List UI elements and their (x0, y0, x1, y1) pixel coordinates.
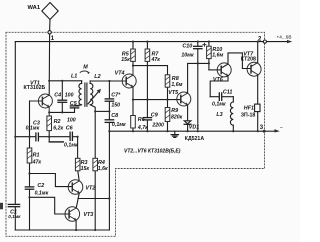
svg-text:1,6к: 1,6к (98, 166, 108, 172)
svg-text:WA1: WA1 (28, 5, 41, 11)
svg-text:47к: 47к (32, 160, 42, 166)
svg-text:1,6м: 1,6м (171, 82, 182, 88)
svg-text:VT3: VT3 (83, 212, 93, 218)
svg-text:10мк: 10мк (181, 52, 194, 58)
svg-text:47к: 47к (151, 57, 161, 63)
svg-text:R9: R9 (171, 108, 178, 114)
svg-text:L1: L1 (71, 73, 77, 79)
svg-text:+4...6В: +4...6В (277, 35, 292, 40)
svg-text:820к: 820к (171, 115, 183, 121)
svg-text:C8: C8 (111, 113, 118, 119)
svg-text:100: 100 (65, 92, 74, 98)
svg-text:R6: R6 (138, 117, 146, 123)
svg-text:VT5: VT5 (168, 90, 179, 96)
svg-text:VT6: VT6 (213, 77, 224, 83)
svg-text:0,1мк: 0,1мк (8, 214, 21, 219)
svg-text:100: 100 (67, 118, 76, 124)
svg-text:VT2...VT6 КТ3102В(Б,Е): VT2...VT6 КТ3102В(Б,Е) (124, 149, 181, 155)
svg-text:150: 150 (111, 103, 120, 109)
svg-text:R1: R1 (33, 153, 40, 159)
svg-text:VT2: VT2 (85, 186, 95, 192)
svg-text:ЗП-18: ЗП-18 (241, 113, 256, 119)
svg-text:VT4: VT4 (115, 71, 125, 77)
svg-text:M: M (83, 64, 88, 70)
svg-text:C10: C10 (182, 44, 192, 50)
svg-text:C2: C2 (37, 183, 44, 189)
svg-text:0,1мк: 0,1мк (35, 190, 49, 196)
svg-text:C9: C9 (151, 112, 158, 118)
svg-text:L3: L3 (216, 112, 222, 118)
svg-text:0,1мк: 0,1мк (212, 101, 226, 107)
svg-text:15к: 15к (121, 57, 130, 63)
svg-text:КД521А: КД521А (185, 136, 205, 142)
svg-text:C7*: C7* (111, 93, 121, 99)
svg-text:L2: L2 (94, 74, 100, 80)
svg-text:0,1мк: 0,1мк (112, 122, 126, 128)
svg-text:−: − (280, 125, 283, 131)
svg-text:4,7к: 4,7к (137, 125, 148, 131)
svg-text:HF1: HF1 (244, 105, 254, 111)
svg-text:КТ208: КТ208 (241, 57, 256, 63)
svg-text:0,1мк: 0,1мк (26, 125, 40, 131)
svg-text:R2: R2 (54, 119, 61, 125)
svg-text:0,1мк: 0,1мк (64, 142, 78, 148)
svg-text:15к: 15к (81, 166, 90, 172)
svg-text:2200: 2200 (151, 122, 164, 128)
svg-text:VD1: VD1 (189, 125, 200, 131)
svg-text:КТ3102Б: КТ3102Б (24, 85, 46, 91)
svg-text:C4: C4 (54, 92, 61, 98)
svg-text:C5: C5 (70, 101, 78, 107)
svg-text:C6: C6 (66, 125, 74, 131)
svg-text:6,2к: 6,2к (53, 125, 63, 131)
svg-text:1,6м: 1,6м (212, 52, 223, 58)
svg-text:C11: C11 (223, 90, 233, 96)
